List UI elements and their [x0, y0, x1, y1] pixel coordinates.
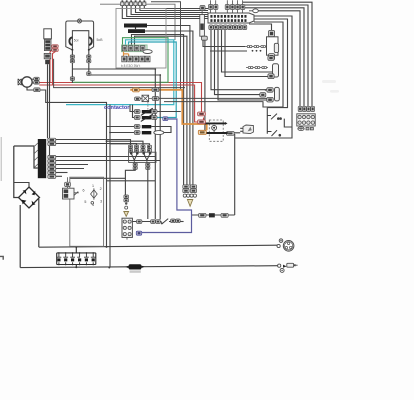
small oval right of block: [249, 9, 258, 13]
horn lead left: [71, 50, 73, 83]
funnel pair right: [143, 153, 151, 161]
wire cube relay to y215 column: [234, 128, 243, 215]
left column connector 4: [45, 60, 50, 64]
bridge top stub: [14, 183, 29, 188]
connector strip top-left: [121, 0, 146, 5]
svg-text:5ol: 5ol: [74, 38, 79, 42]
wire relay2 aux: [210, 50, 247, 52]
long line lower: [20, 266, 278, 268]
left rail: [14, 146, 19, 198]
ignition navy connector: [136, 231, 141, 235]
horn bottom wire 1: [72, 68, 155, 70]
fuse component left of block: [200, 6, 208, 41]
red end connectors: [198, 112, 206, 124]
red bus wire A: [39, 83, 201, 115]
left column wire to stack bundle: [54, 59, 185, 88]
relay R1 dots: [252, 50, 262, 52]
wire fusebars to lower stacks: [147, 26, 190, 186]
main contactor bar lower: [202, 132, 227, 134]
orange jumper on row2: [124, 52, 129, 57]
funnel left output drop: [125, 169, 135, 195]
left column verticals: [47, 64, 49, 138]
svg-text:3: 3: [100, 200, 102, 204]
gray companions of red bus: [40, 90, 106, 247]
bar hatch: [34, 143, 38, 168]
left rail top to bar: [14, 146, 38, 168]
big connector block pins row2: [210, 19, 246, 22]
green wire loop: [72, 38, 168, 83]
red riser 2: [53, 51, 56, 85]
svg-text:6: 6: [83, 189, 85, 193]
horn coil left: [69, 37, 72, 45]
main contactor dashed box: [209, 120, 223, 141]
svg-text:contactor: contactor: [104, 105, 130, 111]
red riser 1: [50, 48, 54, 83]
main contactor link: [213, 130, 215, 133]
middle long vertical 1: [154, 69, 156, 219]
down arrow under mid stack: [187, 200, 192, 207]
scan smudge right: [322, 80, 339, 93]
funnel conn3 feed: [107, 141, 144, 145]
wire relay1 coil row to left: [203, 41, 245, 47]
relay R2 pin label row: [246, 66, 268, 68]
big connector block pins row1: [210, 15, 246, 18]
right stack bottom symbols: [298, 127, 314, 131]
funnel drop stack connector: [124, 195, 129, 216]
relay R1 pin label row: [245, 45, 267, 47]
rotary numbers: [83, 184, 103, 207]
middle long vertical 2: [159, 75, 161, 220]
wire strip fan verticals to lower stacks: [132, 35, 184, 186]
horn bottom wire 2: [89, 74, 160, 76]
red bus wire B: [39, 85, 198, 122]
funnel right output drop: [147, 169, 149, 219]
ignition row line: [132, 221, 170, 223]
funnel bottom connectors: [133, 160, 150, 169]
contactor row4 feed: [110, 132, 134, 134]
contactor top relay square: [135, 95, 267, 107]
horn inner loop: [72, 31, 88, 50]
motor connectors: [34, 77, 40, 92]
bar connector column: [48, 138, 56, 178]
wire switch bracket: [235, 108, 292, 138]
bottom-right target circle group: [277, 239, 294, 251]
horn outline pentagon: [66, 21, 94, 50]
horn coil right: [89, 37, 92, 45]
contactor row4 with oval fuse: [134, 131, 164, 135]
contactor row3 row4 right loop: [151, 127, 171, 133]
micro switch left of rotary box: [63, 177, 79, 199]
svg-text:5oB: 5oB: [97, 38, 104, 42]
main contactor bar upper: [205, 122, 227, 124]
motor bowtie terminal: [18, 79, 22, 85]
connectors above block group2: [225, 0, 245, 13]
left column white connector: [44, 29, 52, 39]
horn lead connectors: [70, 55, 91, 80]
y215 run connectors: [199, 213, 229, 217]
contactor row3: [134, 125, 151, 129]
wire block right to x287.5 switch feed: [254, 19, 288, 108]
cube relay: [243, 125, 253, 134]
switch arm 2 right: [267, 130, 280, 136]
big connector block outline: [208, 13, 254, 23]
bar column fan wires: [56, 140, 160, 177]
inductor on lower line: [125, 264, 144, 273]
second box wire: [107, 180, 156, 182]
ignition switch block: [122, 218, 132, 239]
funnel box: [129, 152, 156, 162]
lamp circle: [78, 19, 82, 23]
wire ignition row to stack vertical: [180, 221, 183, 223]
funnel conn4 feed: [110, 144, 150, 145]
horn junction dots: [71, 49, 73, 51]
funnel pair left: [130, 153, 138, 161]
svg-text:2: 2: [100, 187, 102, 191]
wire strip staircase into block: [122, 6, 208, 19]
orange wire coil run: [130, 90, 206, 131]
relay R2: [268, 56, 279, 79]
funnel connectors above: [128, 145, 151, 152]
svg-text:b 8 E3O 3W t: b 8 E3O 3W t: [121, 64, 140, 68]
wire block right to x283: [254, 22, 283, 107]
bottom-right plug group: [278, 263, 298, 272]
right stack wires connectors row: [298, 106, 314, 111]
wire fuse bottom to connector pair: [204, 41, 206, 131]
horn lead right: [88, 50, 90, 75]
diode row capacitors: [57, 252, 96, 265]
fuse bar link: [135, 28, 137, 30]
relay R3: [260, 87, 280, 102]
svg-text:1: 1: [92, 184, 94, 188]
rotary switch box: [70, 177, 104, 246]
svg-text:5: 5: [84, 200, 86, 204]
mid stack connectors x183-196: [183, 185, 197, 197]
left column pair red: [52, 45, 58, 52]
wire block bottom fan to relays: [211, 30, 272, 101]
long line upper: [39, 245, 277, 247]
wire relay3 bottom to x283: [263, 106, 283, 108]
navy wire loop to ignition: [142, 119, 192, 233]
contactor row1 out to orange junction: [157, 111, 181, 113]
bridge diodes: [22, 190, 36, 205]
switch arm 1 right: [267, 114, 281, 120]
big gray enclosure box top-middle: [116, 9, 166, 69]
ignition row connectors: [137, 219, 181, 225]
wire top faint runs: [151, 2, 181, 90]
orange coil connectors: [133, 88, 159, 92]
bridge left drop: [19, 205, 21, 268]
contactor row1: [134, 108, 157, 115]
wire oval to stack: [258, 11, 300, 106]
bridge right drop: [38, 199, 40, 247]
fuse bar 2: [128, 29, 145, 33]
wire y215 connector run: [192, 214, 235, 216]
diode row rails: [57, 247, 96, 267]
red stub to bar: [203, 118, 205, 123]
contactor left stubs: [130, 105, 134, 118]
relay R1: [267, 30, 279, 59]
fuse bar 1: [124, 24, 147, 28]
teal wire A cyan branch: [66, 40, 174, 105]
page left edge artifact: [0, 137, 2, 181]
orange end connector: [198, 130, 206, 134]
block bottom connector row: [209, 25, 247, 30]
green connector row 1: [122, 45, 148, 52]
thick ground bar: [38, 139, 46, 178]
left column dark connector stack: [44, 39, 51, 50]
teal wire B to contactor row2: [129, 42, 177, 118]
rotary switch symbol: [91, 188, 98, 204]
contactor row3 feed: [107, 126, 135, 128]
connectors above block group1: [209, 0, 218, 13]
wire top bus to right connector stacks: [232, 2, 312, 106]
main contactor coil circle: [212, 125, 217, 130]
wire relay1 top feed: [249, 24, 272, 30]
rotary box top wire: [70, 177, 126, 179]
motor circle: [22, 77, 32, 87]
scan corner mark bottom-left: [0, 256, 3, 259]
connector row 2: [122, 56, 150, 62]
junction dots: [75, 68, 278, 268]
white oval fuse right of row1: [143, 50, 152, 54]
svg-text:4: 4: [92, 203, 94, 207]
right stack 8-pin block: [297, 114, 315, 126]
contactor row2: [134, 114, 168, 121]
contactor dashed link: [147, 96, 149, 110]
wire block right to x292: [235, 16, 292, 138]
connector pair left of cube: [220, 132, 235, 136]
left column connector 3: [44, 53, 51, 58]
motor stubs: [27, 79, 34, 90]
bridge rectifier diamond: [19, 187, 40, 208]
